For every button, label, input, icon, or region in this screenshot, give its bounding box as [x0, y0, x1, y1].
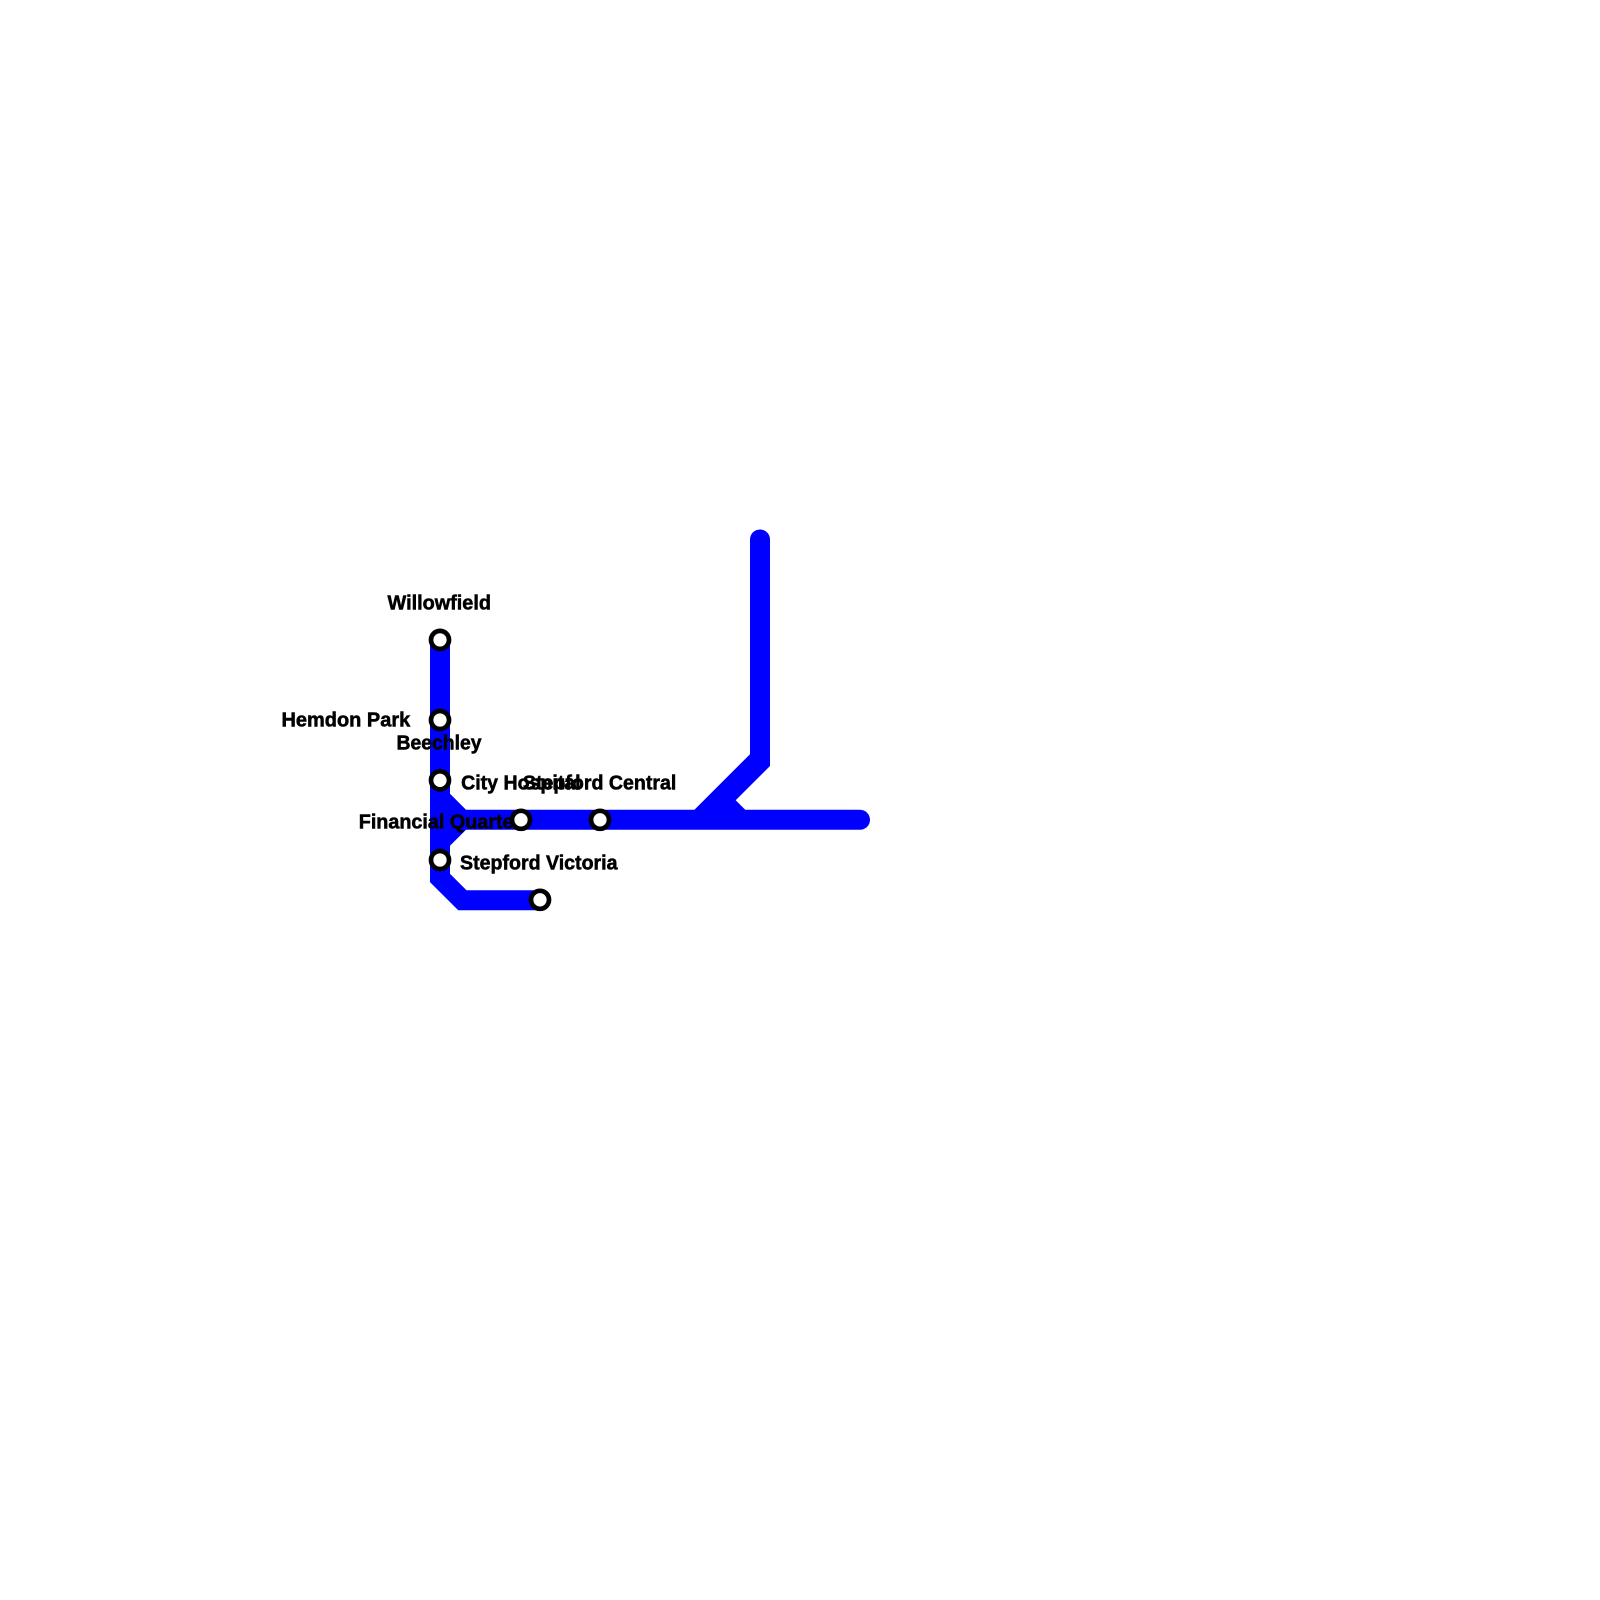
svg-text:Stepford Central: Stepford Central	[523, 771, 677, 794]
node Willowfield	[431, 631, 449, 649]
wire: left route Willowfield to south terminus	[440, 640, 541, 900]
node Stepford Central	[591, 811, 609, 829]
wire: junction chamfer bottom	[445, 824, 466, 851]
node Stepford Victoria	[431, 851, 449, 869]
svg-text:Hemdon Park: Hemdon Park	[282, 709, 411, 732]
node Hemdon Park	[431, 711, 449, 729]
wire: junction chamfer top	[445, 789, 466, 816]
wire: right branch	[688, 530, 770, 817]
svg-text:Beechley: Beechley	[397, 732, 483, 755]
node Financial Quarter	[512, 811, 530, 829]
node south terminus	[531, 891, 549, 909]
svg-text:Financial Quarter: Financial Quarter	[359, 811, 522, 834]
svg-text:Willowfield: Willowfield	[388, 592, 492, 615]
node Beechley / City Hospital	[431, 771, 449, 789]
wire: main horizontal line	[445, 810, 860, 830]
svg-text:Stepford Victoria: Stepford Victoria	[460, 851, 618, 874]
